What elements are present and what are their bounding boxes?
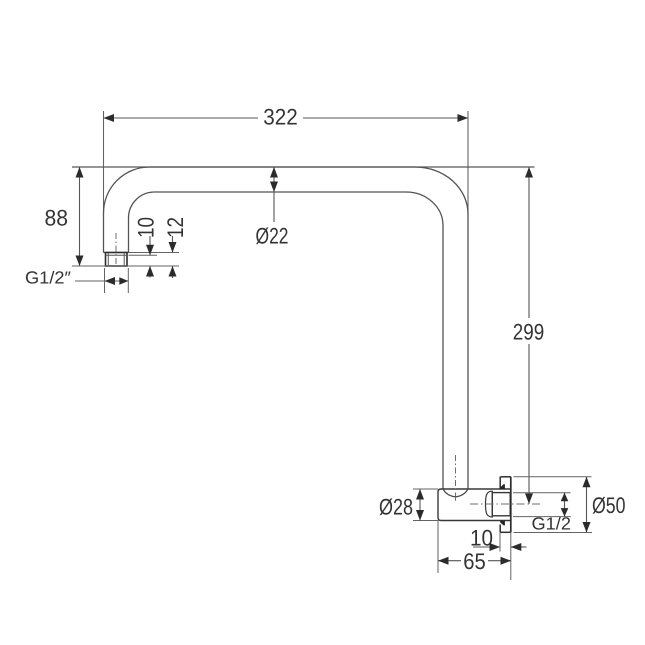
- svg-text:G1/2: G1/2: [532, 514, 572, 534]
- centerline: right pipe axis: [455, 455, 457, 497]
- wire: extension lines thread dia (G1/2 dim): [513, 492, 571, 494]
- svg-text:Ø22: Ø22: [256, 224, 289, 249]
- wire: extension line body left (65 dim): [437, 521, 439, 574]
- Ø50 dimension: [586, 477, 588, 533]
- wire: 322 dimension line: [104, 117, 259, 119]
- svg-text:322: 322: [263, 105, 298, 130]
- svg-text:10: 10: [134, 217, 159, 238]
- thread chamfer oval: [486, 491, 493, 517]
- flange clip mark top: [500, 484, 505, 489]
- left thread fitting G1/2: [106, 253, 128, 267]
- centerline: left pipe axis: [115, 233, 117, 266]
- wire: extension line fitting bottom (88/10/12 dims): [72, 265, 179, 267]
- pipe outer edge: [104, 167, 469, 489]
- G1/2 dimension double arrow: [564, 493, 566, 517]
- svg-text:Ø50: Ø50: [592, 493, 626, 518]
- node: left pipe end shoulder: [104, 252, 129, 254]
- flange clip mark bottom: [500, 521, 505, 526]
- wire: horizontal reference line (pipe top + 88/299 extensions): [72, 166, 535, 168]
- svg-text:12: 12: [163, 217, 188, 238]
- fitting width dimension double arrow: [105, 280, 129, 282]
- centerline: outlet axis: [470, 503, 543, 505]
- pipe end cone inside body: [443, 489, 468, 497]
- wire: leader from G1/2": [75, 280, 105, 282]
- 65 dimension: [438, 560, 461, 562]
- flange plate (wall escutcheon): [499, 477, 501, 490]
- 299 dimension: [528, 167, 530, 318]
- svg-text:65: 65: [463, 549, 486, 574]
- 10 dimension (flange): [473, 546, 500, 548]
- svg-text:Ø28: Ø28: [379, 495, 413, 520]
- wire: extension line wall plane (10/65 dims): [510, 532, 512, 580]
- 12 dimension (left fitting): [172, 236, 174, 253]
- svg-text:88: 88: [45, 206, 69, 231]
- wire: extension line shoulder (12 dim): [129, 252, 180, 254]
- svg-text:10: 10: [470, 526, 493, 551]
- wire: extension lines flange dia (Ø50 dim): [514, 476, 592, 478]
- elbow body (lower): [438, 489, 511, 521]
- wire: 322 extension line right: [467, 111, 469, 214]
- thread G1/2 (right): [492, 493, 510, 516]
- svg-text:G1/2″: G1/2″: [25, 268, 71, 288]
- wire: extension line flange face (10 dim): [499, 533, 501, 552]
- 88 dimension: [79, 167, 81, 266]
- 10 dimension (left fitting): [149, 236, 151, 255]
- svg-text:299: 299: [513, 319, 545, 344]
- Ø22 dimension: [273, 167, 275, 222]
- wire: 322 extension line left: [103, 111, 105, 214]
- wire: extension lines fitting width: [104, 268, 106, 293]
- pipe inner edge: [129, 192, 444, 489]
- Ø28 dimension: [413, 488, 438, 490]
- wire: extension line thread start (10 dim): [129, 254, 158, 256]
